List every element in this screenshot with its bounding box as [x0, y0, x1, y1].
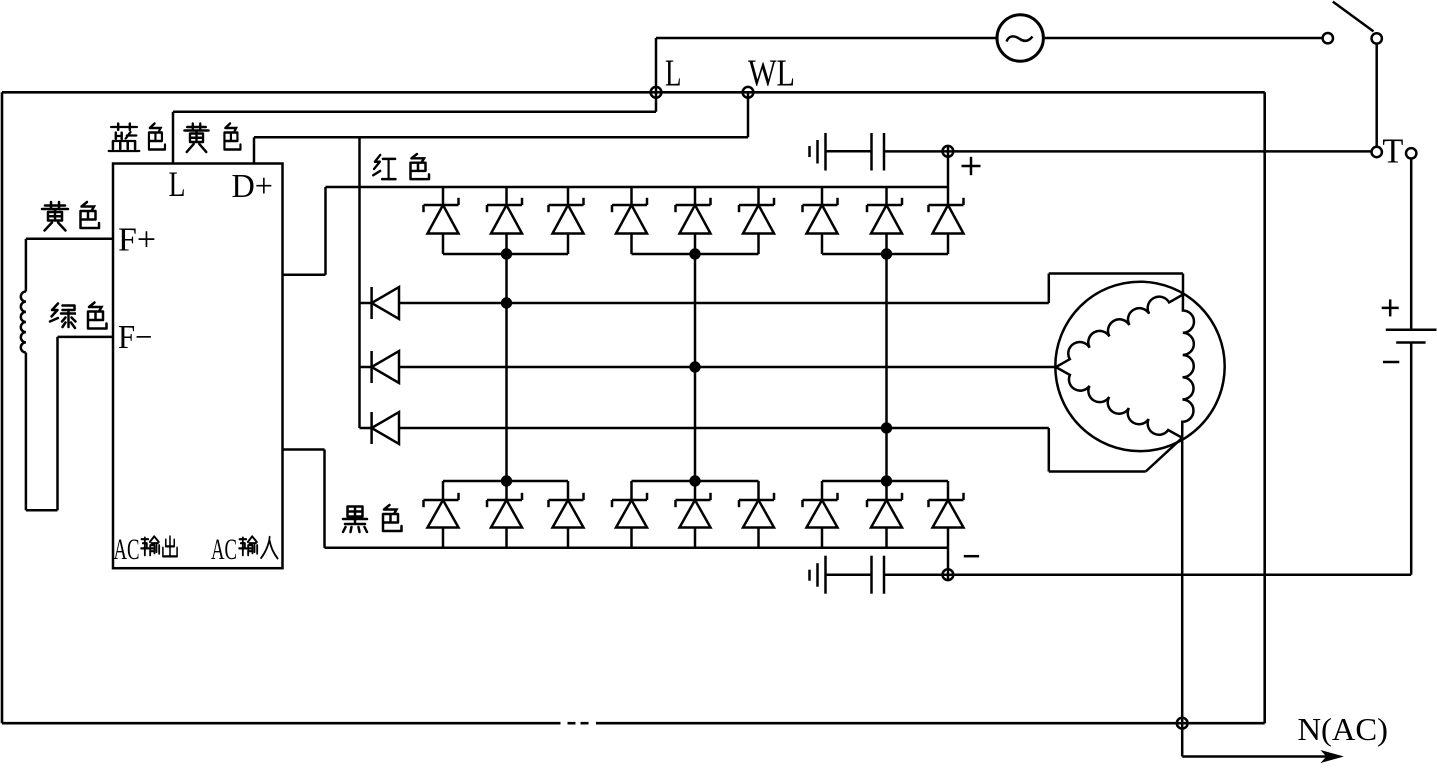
- svg-text:F+: F+: [118, 221, 156, 258]
- svg-text:L: L: [169, 164, 186, 204]
- svg-text:AC: AC: [114, 533, 140, 566]
- svg-text:WL: WL: [748, 52, 795, 94]
- svg-text:T: T: [1382, 132, 1403, 171]
- svg-text:D+: D+: [232, 168, 274, 205]
- svg-text:F−: F−: [118, 319, 153, 356]
- svg-text:L: L: [665, 52, 682, 94]
- svg-text:AC: AC: [211, 533, 237, 566]
- svg-text:N(AC): N(AC): [1298, 711, 1389, 747]
